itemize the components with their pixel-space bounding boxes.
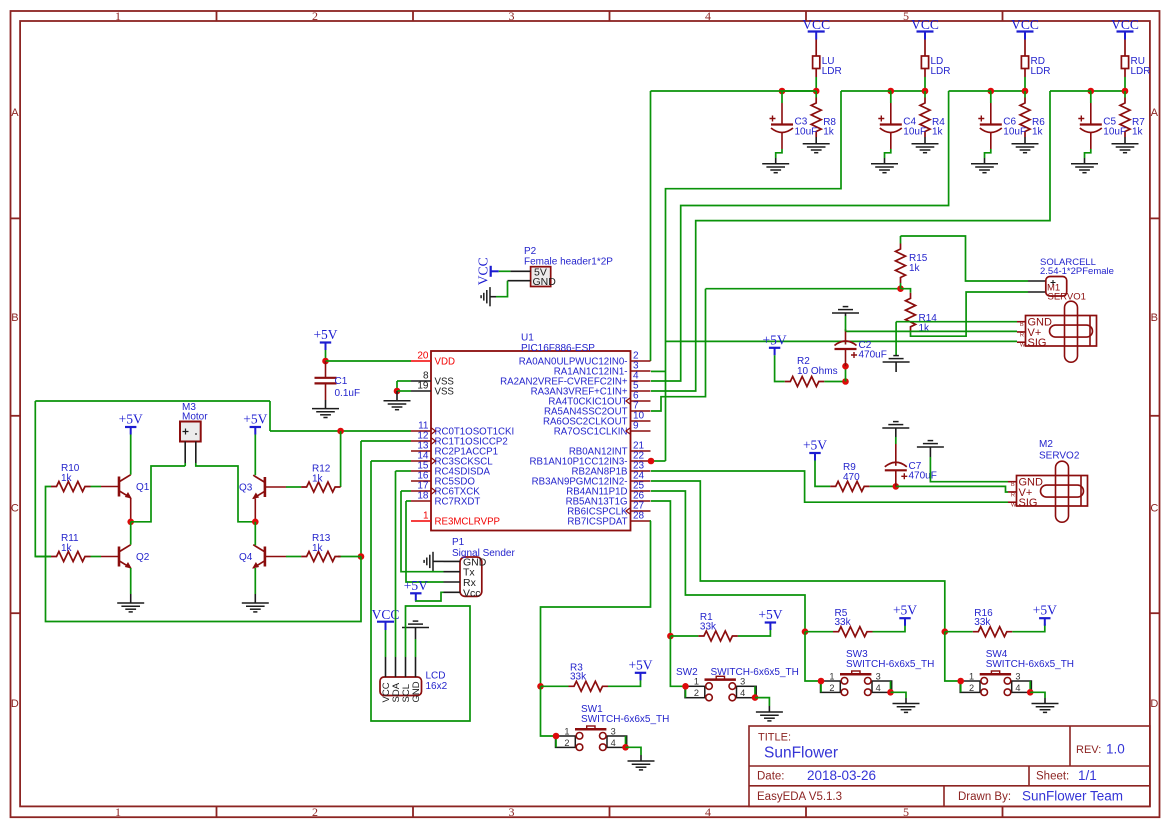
wire C2 top to servo1 V+ (846, 330, 1018, 332)
wire VSS pin19 (397, 390, 411, 392)
resistor R11 1k (51, 552, 90, 562)
svg-text:REV:: REV: (1076, 744, 1101, 756)
svg-text:VCC: VCC (802, 17, 830, 32)
svg-text:A: A (11, 107, 19, 119)
svg-text:Q3: Q3 (239, 483, 253, 494)
svg-text:SWITCH-6x6x5_TH: SWITCH-6x6x5_TH (711, 667, 799, 678)
svg-text:1k: 1k (909, 263, 921, 274)
wire U1 pin11 row (270, 430, 411, 432)
svg-text:1.0: 1.0 (1106, 742, 1125, 757)
pin C4 lower (890, 133, 892, 149)
node VDD/C1 junction (322, 358, 329, 365)
node R16 junction (942, 628, 949, 635)
connector P2 Female header1*2P (508, 267, 551, 287)
svg-text:+5V: +5V (758, 607, 782, 622)
ground stem (433, 560, 444, 562)
pin LCD VCC (385, 657, 387, 677)
+5V power flag (R1) (758, 607, 782, 630)
svg-text:10uF: 10uF (1103, 127, 1126, 138)
pin 23 RB2AN8P1B (631, 470, 651, 472)
title block (749, 726, 1150, 806)
ground under R6 (1012, 144, 1039, 153)
svg-text:VCC: VCC (1111, 17, 1139, 32)
VCC power flag (P2, rotated) (476, 257, 499, 285)
wire R3 node down to SW1 (541, 686, 557, 736)
pin 24 RB3AN9PGMC12IN2- (631, 480, 651, 482)
wire C7 top to ground (895, 437, 897, 444)
svg-text:16x2: 16x2 (426, 681, 448, 692)
node SW4 pin4 (1027, 689, 1034, 696)
wire node to servo2 V+ (896, 486, 1008, 492)
wire net LU down to U1 pin2 (650, 91, 652, 361)
pin Q3 base (265, 486, 286, 488)
wire +5V to Q1 collector (130, 435, 132, 475)
wire pin17 to P1 Tx (401, 491, 444, 572)
wire midpoint to M3 left lead (131, 466, 186, 522)
svg-text:VCC: VCC (476, 257, 491, 285)
wire Q2 emitter to ground (130, 568, 132, 594)
wire Q2 collector to midpoint (130, 522, 132, 545)
wire LU junction row to pin2 drop (651, 90, 817, 92)
svg-text:2: 2 (694, 688, 699, 698)
node junction LD/R4 (922, 88, 929, 95)
wire R16 to +5V (1012, 624, 1045, 632)
svg-text:28: 28 (633, 511, 645, 522)
svg-text:RE3MCLRVPP: RE3MCLRVPP (435, 517, 501, 528)
wire U1 pin24 to R16 node (651, 481, 945, 632)
pin 27 RB6ICSPCLK (631, 510, 651, 512)
svg-text:Q2: Q2 (136, 552, 150, 563)
pin C3 lower (781, 133, 783, 149)
wire C5 to ground (1085, 149, 1091, 158)
switch SW3 SWITCH-6x6x5_TH (821, 671, 892, 696)
wire R5 node down to SW3 (805, 632, 821, 681)
pin C2 top (845, 329, 847, 345)
svg-text:2018-03-26: 2018-03-26 (807, 768, 876, 783)
pin 10 RA6OSC2CLKOUT (631, 420, 651, 422)
wire net RD down to U1 pin4 (651, 91, 949, 381)
resistor R10 1k (51, 482, 90, 492)
wire pin11 top run (35, 400, 270, 402)
pin 13 RC2P1ACCP1 (411, 450, 431, 452)
svg-text:+5V: +5V (628, 657, 652, 672)
wire C4 to ground (885, 149, 891, 158)
pin C5 lower (1090, 133, 1092, 149)
VCC power flag (LU column) (802, 17, 830, 40)
wire U1 pin26 to R1 node (651, 501, 670, 636)
wire +5V to VDD node (325, 350, 327, 361)
node R5 junction (802, 628, 809, 635)
ground under C6 (971, 164, 998, 173)
svg-text:470: 470 (843, 472, 860, 483)
svg-text:A: A (1151, 107, 1159, 119)
wire net LD down to U1 pin22 (666, 91, 842, 461)
wire pin15 to LCD SDA (395, 471, 397, 657)
svg-text:1: 1 (694, 677, 699, 687)
+5V power flag (R16) (1033, 603, 1057, 626)
svg-text:4: 4 (705, 805, 711, 819)
ground (SW4) (1032, 704, 1059, 713)
wire to R11 left (35, 556, 51, 558)
wire SW3 pin4 to ground (891, 692, 907, 698)
pin 7 RA5AN4SSC2OUT (631, 410, 651, 412)
pin 15 RC4SDISDA (411, 470, 431, 472)
node SW1 pin4 (622, 744, 629, 751)
capacitor C3 10uF (770, 116, 794, 133)
ground under C3 (762, 164, 789, 173)
node Q3/Q4 midpoint (252, 519, 259, 526)
VCC power flag (RU column) (1111, 17, 1139, 40)
wire U1 pin12 row (361, 440, 411, 442)
pin P1 Vcc (444, 591, 461, 593)
node junction LU/R8 (813, 88, 820, 95)
svg-text:4: 4 (705, 9, 711, 23)
svg-text:3: 3 (740, 677, 745, 687)
ground stem (1084, 158, 1086, 164)
ground under R8 (803, 144, 830, 153)
svg-text:4: 4 (1015, 683, 1020, 693)
pin 19 VSS (411, 390, 431, 392)
resistor R3 33k (569, 681, 609, 691)
svg-text:1k: 1k (312, 473, 324, 484)
wire Q3 base to R12 (286, 486, 301, 488)
pin C1 bottom (325, 383, 327, 400)
svg-text:10uF: 10uF (795, 127, 818, 138)
pin R4 to ground (924, 137, 926, 144)
svg-text:SunFlower Team: SunFlower Team (1022, 789, 1123, 804)
svg-text:VSS: VSS (435, 387, 455, 398)
node R9/C7/servo2 junction (893, 483, 900, 490)
ground stem (415, 628, 417, 640)
ground under C4 (871, 164, 898, 173)
svg-text:2: 2 (969, 683, 974, 693)
svg-text:33k: 33k (835, 617, 852, 628)
svg-text:+5V: +5V (119, 412, 143, 427)
pin 6 RA4T0CKIC1OUT (631, 400, 651, 402)
pin junction to C5 (1090, 91, 1092, 103)
pin C2 bottom (845, 349, 847, 366)
resistor R13 1k (301, 552, 340, 562)
ground stem (775, 158, 777, 164)
wire ground to LCD GND pin (415, 639, 417, 657)
svg-text:2: 2 (312, 805, 318, 819)
resistor R6 1k (1020, 98, 1030, 137)
wire R15 top to M1 pin1 (901, 236, 1029, 281)
node junction LD/C4 (888, 88, 895, 95)
svg-text:33k: 33k (570, 672, 587, 683)
svg-text:10 Ohms: 10 Ohms (797, 366, 838, 377)
svg-text:B: B (1151, 312, 1158, 324)
svg-text:LDR: LDR (931, 66, 951, 77)
pin C6 lower (990, 133, 992, 149)
wire servo1 GND down to ground (895, 322, 897, 355)
wire +5V to Q3 collector (254, 435, 256, 476)
wire VCC to P2 5V (499, 270, 511, 272)
svg-text:VDD: VDD (435, 357, 455, 368)
pin 26 RB5AN13T1G (631, 500, 651, 502)
ground stem (895, 428, 897, 437)
svg-text:TITLE:: TITLE: (758, 732, 791, 744)
capacitor C6 10uF (978, 116, 1002, 133)
pin 17 RC6TXCK (411, 490, 431, 492)
wire R16 node down to SW4 (945, 632, 961, 681)
wire R9 to C7 node (870, 485, 896, 487)
svg-text:1k: 1k (919, 323, 931, 334)
svg-text:+5V: +5V (803, 438, 827, 453)
wire U1 pin25 to R5 node (651, 491, 805, 632)
svg-text:10uF: 10uF (1003, 127, 1026, 138)
wire left drop to R11 (35, 401, 51, 557)
svg-text:33k: 33k (974, 617, 991, 628)
wire VSS drop (396, 381, 398, 391)
svg-text:SWITCH-6x6x5_TH: SWITCH-6x6x5_TH (986, 659, 1074, 670)
svg-text:3: 3 (611, 726, 616, 736)
pin 3 RA1AN1C12IN1- (631, 370, 651, 372)
node SW4 pin1 (957, 678, 964, 685)
node C2 bottom junction (842, 363, 849, 370)
svg-text:2: 2 (312, 9, 318, 23)
svg-text:B: B (1020, 322, 1024, 328)
pin Q1 emitter lead (130, 498, 132, 522)
svg-text:Vcc: Vcc (463, 587, 481, 599)
node SW2 pin1 (682, 683, 689, 690)
svg-text:Drawn By:: Drawn By: (958, 791, 1011, 803)
wire RD to junction (1024, 77, 1026, 91)
ground stem (984, 158, 986, 164)
pin junction to C3 (781, 91, 783, 103)
node pin11/R12 junction (337, 428, 344, 435)
svg-text:1k: 1k (1132, 127, 1144, 138)
wire node to R3 (541, 685, 569, 687)
transistor Q2 (119, 545, 131, 568)
IC U1 PIC16F886-ESP body (431, 351, 631, 531)
svg-text:LDR: LDR (1131, 66, 1151, 77)
wire junction to R6 (1024, 91, 1026, 98)
svg-text:SunFlower: SunFlower (764, 745, 838, 762)
svg-text:W: W (1020, 343, 1026, 349)
connector P1 Signal Sender (460, 557, 482, 596)
ground (C7 top) (882, 422, 909, 428)
svg-text:10uF: 10uF (903, 127, 926, 138)
svg-text:1k: 1k (1032, 127, 1044, 138)
svg-text:1: 1 (423, 511, 429, 522)
svg-text:470uF: 470uF (859, 350, 887, 361)
svg-text:RA7OSC1CLKIN: RA7OSC1CLKIN (554, 427, 628, 438)
wire R13 right (338, 556, 361, 558)
node R15/R14/pin7 junction (897, 285, 904, 292)
pin P1 Tx (444, 571, 461, 573)
pin 8 VSS (411, 380, 431, 382)
pin 18 RC7RXDT (411, 500, 431, 502)
svg-text:GND: GND (411, 681, 422, 702)
+5V power flag (R3) (628, 657, 652, 680)
svg-text:9: 9 (633, 421, 639, 432)
svg-text:1k: 1k (932, 127, 944, 138)
node SW2 pin4 (752, 694, 759, 701)
wire R1 to +5V (738, 628, 771, 636)
svg-text:1k: 1k (61, 473, 73, 484)
capacitor C2 470uF (835, 341, 858, 358)
svg-text:GND: GND (533, 276, 557, 288)
ground (P1 GND) (424, 552, 433, 571)
node VSS junction (394, 388, 401, 395)
svg-text:1k: 1k (61, 543, 73, 554)
svg-text:Female header1*2P: Female header1*2P (524, 257, 613, 268)
node SW3 pin1 (818, 678, 825, 685)
svg-text:+5V: +5V (243, 412, 267, 427)
svg-text:4: 4 (740, 688, 745, 698)
wire to U1 pin20 VDD (326, 360, 412, 362)
ground under R7 (1112, 144, 1139, 153)
pin 25 RB4AN11P1D (631, 490, 651, 492)
resistor R7 1k (1120, 98, 1130, 137)
ground stem (905, 698, 907, 704)
svg-text:3: 3 (509, 9, 515, 23)
svg-text:EasyEDA V5.1.3: EasyEDA V5.1.3 (757, 791, 842, 803)
wire R2 to C2 node (824, 381, 845, 383)
pin LCD GND (415, 657, 417, 677)
wire C6 to ground (985, 149, 991, 158)
svg-text:SW2: SW2 (676, 667, 698, 678)
pin R7 to ground (1124, 137, 1126, 144)
svg-text:+5V: +5V (404, 578, 428, 593)
pin Q4 base (265, 556, 286, 558)
pin R8 to ground (815, 137, 817, 144)
svg-text:SERVO2: SERVO2 (1039, 451, 1080, 462)
pin 28 RB7ICSPDAT (631, 520, 651, 522)
ground stem (640, 755, 642, 761)
svg-text:1: 1 (115, 805, 121, 819)
svg-text:B: B (11, 312, 18, 324)
svg-text:M2: M2 (1039, 439, 1053, 450)
svg-text:470uF: 470uF (909, 471, 937, 482)
svg-text:+5V: +5V (1033, 603, 1057, 618)
ground under C5 (1071, 164, 1098, 173)
wire U1 pin17 stub (401, 490, 411, 492)
svg-text:Sheet:: Sheet: (1036, 771, 1069, 783)
ground (SW2) (756, 712, 783, 721)
VCC power flag (RD column) (1011, 17, 1039, 40)
resistor R4 1k (920, 98, 930, 137)
node R3 junction (537, 683, 544, 690)
resistor R5 33k (833, 627, 873, 637)
svg-text:2: 2 (829, 683, 834, 693)
svg-text:SIG: SIG (1028, 337, 1047, 349)
svg-text:0.1uF: 0.1uF (335, 388, 361, 399)
ground (LCD GND) (402, 621, 429, 627)
pin C7 bottom (895, 470, 897, 486)
svg-text:4: 4 (876, 683, 881, 693)
svg-text:LDR: LDR (1031, 66, 1051, 77)
svg-text:SERVO1: SERVO1 (1048, 292, 1086, 303)
+5V power flag (P1 Vcc) (404, 578, 428, 601)
capacitor C5 10uF (1078, 116, 1102, 133)
svg-text:SWITCH-6x6x5_TH: SWITCH-6x6x5_TH (581, 714, 669, 725)
svg-text:+5V: +5V (313, 327, 337, 342)
wire R3 to +5V (608, 678, 641, 686)
svg-text:SWITCH-6x6x5_TH: SWITCH-6x6x5_TH (846, 659, 934, 670)
connector M2 SERVO2 (1008, 461, 1088, 522)
node Q1/Q2 midpoint (127, 519, 134, 526)
resistor R14 1k (906, 293, 916, 332)
transistor Q1 (119, 475, 131, 498)
pin 14 RC3SCKSCL (411, 460, 431, 462)
+5V power flag (Q1) (119, 412, 143, 435)
pin C7 top (895, 444, 897, 466)
svg-text:R: R (1011, 492, 1015, 498)
wire Q4 emitter to ground (254, 568, 256, 594)
node pin12/R13 junction (358, 553, 365, 560)
node SW3 pin4 (887, 689, 894, 696)
wire junction to R8 (815, 91, 817, 98)
svg-text:C1: C1 (335, 376, 348, 387)
resistor R12 1k (301, 482, 340, 492)
wire U1 pin15 stub (396, 470, 412, 472)
wire pin11 to R12 right (340, 431, 342, 487)
svg-text:RB7ICSPDAT: RB7ICSPDAT (567, 517, 627, 528)
svg-text:C: C (11, 503, 19, 515)
node junction RD/C6 (988, 88, 995, 95)
svg-text:B: B (1011, 482, 1015, 488)
wire bottom loop to R10 (46, 487, 362, 622)
wire U1 pin14 stub (371, 460, 411, 462)
wire Q4 base to R13 (286, 556, 301, 558)
wire ground to servo2 GND (930, 457, 1008, 482)
wire LU to junction (815, 77, 817, 91)
wire pin11 riser (269, 401, 271, 431)
svg-text:R: R (1020, 332, 1024, 338)
svg-text:1k: 1k (823, 127, 835, 138)
wire R1 node down to SW2 (670, 636, 685, 686)
node junction LU/C3 (779, 88, 786, 95)
capacitor C4 10uF (878, 116, 902, 133)
wire pin22 to LD net vertical (651, 460, 666, 462)
pin Q3 emitter lead (254, 498, 256, 521)
wire R15 bottom to junction (900, 283, 902, 289)
pin junction to C4 (890, 91, 892, 103)
ground (VSS) (384, 401, 411, 410)
wire SW2 pin4 to ground (755, 698, 769, 706)
pin 4 RA2AN2VREF-CVREFC2IN+ (631, 380, 651, 382)
wire LD to junction (924, 77, 926, 91)
pin 20 VDD (411, 360, 431, 362)
ground stem (490, 296, 496, 298)
ground stem (768, 706, 770, 712)
wire M3 left lead tip (184, 463, 186, 466)
node SW1 pin1 (553, 733, 560, 740)
wire U1 pin18 stub (406, 500, 411, 502)
VCC power flag (LCD) (372, 607, 400, 630)
ground (servo1 GND) (883, 356, 910, 362)
svg-text:Q4: Q4 (239, 552, 253, 563)
resistor R15 1k (896, 244, 906, 283)
wire C3 to ground (776, 149, 782, 158)
ground stem (396, 391, 398, 401)
pin 22 RB1AN10P1CC12IN3- (631, 460, 651, 462)
motor M3 (180, 422, 201, 464)
transistor Q4 (253, 545, 265, 568)
wire node to R1 (670, 635, 698, 637)
node junction RU/R7 (1122, 88, 1129, 95)
svg-text:3: 3 (876, 671, 881, 681)
svg-text:2.54-1*2PFemale: 2.54-1*2PFemale (1040, 266, 1114, 277)
node R1 junction (667, 633, 674, 640)
connector LCD 16x2 (380, 677, 422, 696)
svg-text:W: W (1011, 503, 1017, 509)
ground (C2 top) (832, 307, 859, 313)
wire M3 right lead to Q3/Q4 midpoint (196, 463, 256, 522)
connector M1 SOLARCELL 2.54-1*2PFemale (1028, 277, 1067, 297)
